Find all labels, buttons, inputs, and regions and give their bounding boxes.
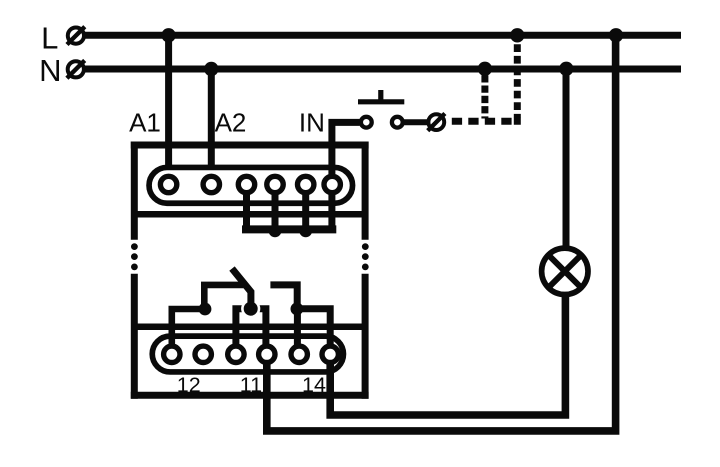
svg-text:A2: A2 — [215, 107, 247, 137]
device box outline — [131, 142, 369, 399]
pushbutton actuator — [358, 90, 404, 102]
terminal 14b ring — [322, 346, 338, 362]
NO contact path — [270, 285, 297, 309]
terminal 14a ring — [291, 346, 307, 362]
node N-A2 — [204, 62, 218, 76]
internal link terminals 3-6 comb — [242, 185, 336, 230]
terminal 12a ring — [164, 346, 180, 362]
terminal A1 ring — [160, 176, 176, 192]
dashed wire horizontal — [452, 118, 512, 125]
svg-text:A1: A1 — [129, 107, 161, 137]
terminal strip lower — [152, 336, 343, 372]
node 11 — [244, 302, 258, 316]
pushbutton contact right — [392, 117, 403, 128]
divider lower — [134, 324, 365, 331]
terminal 4 ring — [267, 176, 283, 192]
wire button to screw — [403, 119, 429, 125]
dashed wire to N — [481, 75, 488, 118]
wire 14 to lamp — [330, 297, 565, 415]
node 14 — [291, 303, 304, 316]
terminal 12b ring — [195, 346, 211, 362]
terminal 5 ring — [298, 176, 314, 192]
svg-text:14: 14 — [302, 373, 326, 397]
relay arm — [232, 269, 251, 309]
wire 11 to L — [267, 35, 616, 431]
terminal 3 ring — [238, 176, 254, 192]
svg-text:IN: IN — [299, 108, 325, 138]
node L-A1 — [161, 28, 175, 42]
node comb 4 — [269, 225, 282, 238]
relay arm halo — [241, 299, 260, 318]
svg-text:11: 11 — [240, 373, 262, 397]
terminal IN ring — [324, 176, 340, 192]
node L dash — [510, 28, 524, 42]
bridge terminals 3-4 — [236, 309, 266, 354]
dashed corner piece — [517, 118, 521, 122]
terminal A2 ring — [203, 176, 219, 192]
terminal 11b ring — [259, 346, 275, 362]
terminal L screw — [67, 27, 85, 45]
wire lamp top — [563, 69, 570, 250]
node N dash — [478, 62, 492, 76]
node N lamp — [559, 62, 573, 76]
node 12 — [199, 303, 212, 316]
pushbutton contact left — [361, 117, 372, 128]
lamp E1 — [542, 248, 588, 294]
dashed wire to L — [514, 44, 521, 118]
node L return — [609, 28, 623, 42]
bridge terminals 5-6 — [297, 309, 330, 348]
terminal strip upper — [149, 167, 352, 203]
svg-text:N: N — [39, 53, 61, 88]
wire L bus — [85, 32, 681, 39]
divider upper — [134, 211, 365, 218]
box continuation dots right — [362, 243, 369, 270]
wire IN drop — [332, 122, 360, 184]
wire N bus — [85, 66, 681, 73]
terminal screw button — [428, 114, 445, 131]
wire A2 — [208, 69, 215, 185]
svg-text:L: L — [41, 20, 58, 55]
terminal N screw — [67, 60, 85, 78]
wire A1 — [165, 35, 172, 184]
node comb 5 — [299, 225, 312, 238]
NC contact path terminals 1-2 — [172, 285, 244, 354]
box continuation dots left — [131, 243, 138, 270]
terminal 11a ring — [228, 346, 244, 362]
svg-text:12: 12 — [177, 373, 201, 397]
